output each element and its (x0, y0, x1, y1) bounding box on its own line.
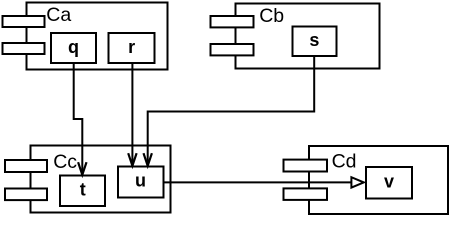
component Cc tab 1 (5, 160, 47, 172)
svg-text:v: v (384, 171, 394, 191)
wire q to t (74, 63, 83, 174)
arrowhead at u from s (144, 153, 152, 166)
component Ca tab 1 (3, 16, 45, 27)
svg-text:Cd: Cd (332, 151, 357, 173)
box u (118, 167, 164, 198)
box v (366, 167, 412, 199)
component Cc tab 2 (5, 189, 47, 201)
label t (80, 180, 86, 200)
component Cd tab 1 (284, 160, 328, 172)
label Cb (259, 5, 284, 27)
svg-text:q: q (68, 37, 79, 57)
svg-text:s: s (309, 30, 319, 50)
component Ca tab 2 (3, 43, 45, 54)
svg-text:Cc: Cc (53, 151, 77, 173)
box t (60, 176, 105, 207)
component Cb body (236, 4, 380, 69)
label Ca (46, 4, 71, 26)
label Cc (53, 151, 77, 173)
label r (128, 37, 135, 57)
arrowhead at t (78, 162, 86, 175)
label Cd (332, 151, 357, 173)
component Cc body (31, 146, 171, 213)
label s (309, 30, 319, 50)
wire r to u (131, 63, 133, 165)
component Ca body (27, 3, 168, 70)
svg-text:t: t (80, 180, 86, 200)
component Cd body (309, 146, 448, 214)
arrowhead at u from r (128, 153, 136, 166)
svg-text:u: u (135, 171, 146, 191)
box r (109, 33, 155, 63)
wire s to u (148, 56, 315, 165)
label u (135, 171, 146, 191)
box q (51, 33, 96, 63)
component Cb tab 2 (211, 44, 254, 55)
open triangle arrowhead at v (351, 177, 363, 187)
svg-text:Cb: Cb (259, 5, 284, 27)
label v (384, 171, 394, 191)
component Cd tab 2 (284, 188, 328, 200)
svg-text:Ca: Ca (46, 4, 71, 26)
label q (68, 37, 79, 57)
box s (293, 27, 337, 57)
wire u to v (164, 181, 352, 183)
component Cb tab 1 (211, 16, 254, 27)
svg-text:r: r (128, 37, 135, 57)
